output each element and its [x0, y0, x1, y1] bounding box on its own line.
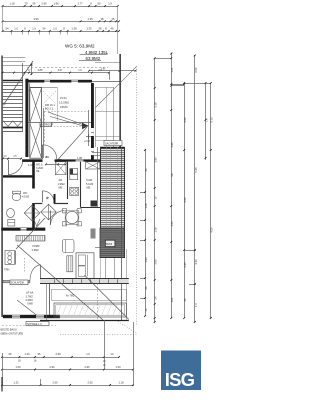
svg-text:4.50: 4.50	[183, 197, 187, 203]
svg-text:BV03: BV03	[106, 243, 113, 246]
bath door arc	[8, 160, 23, 175]
svg-text:18: 18	[18, 360, 21, 363]
svg-text:96: 96	[170, 173, 174, 176]
ISG logo	[161, 351, 201, 391]
svg-text:3,3M2: 3,3M2	[32, 248, 40, 252]
svg-text:1.0: 1.0	[194, 303, 198, 307]
svg-text:1.26: 1.26	[24, 352, 30, 356]
right dim verticals	[146, 53, 211, 322]
svg-text:84: 84	[46, 155, 50, 159]
svg-text:10: 10	[103, 361, 106, 363]
svg-text:WG 5: 63,9M2: WG 5: 63,9M2	[65, 44, 95, 49]
glazing verticals below block	[105, 258, 107, 283]
stair dark landing line	[3, 80, 23, 82]
bedroom door arc	[30, 265, 41, 281]
stair run diagonal	[4, 61, 33, 104]
svg-text:1,9M2: 1,9M2	[58, 182, 66, 186]
svg-text:BESTE BAUX: BESTE BAUX	[1, 328, 18, 332]
svg-text:1.0: 1.0	[86, 352, 90, 356]
svg-text:1.50: 1.50	[15, 365, 21, 369]
big diagonal 1	[17, 245, 103, 320]
dashed line above unit	[27, 67, 108, 69]
corridor walls	[67, 162, 69, 199]
schnee label box	[26, 322, 49, 326]
bath fixture	[8, 220, 15, 227]
svg-text:8: 8	[63, 27, 65, 31]
svg-text:GWB: GWB	[27, 303, 33, 306]
strip dark bottom block	[100, 228, 125, 258]
svg-text:2.45: 2.45	[183, 262, 187, 268]
svg-text:8: 8	[90, 2, 92, 6]
dashed mid line	[44, 126, 88, 128]
bottom dim line 2	[2, 369, 133, 371]
right outer wall	[119, 54, 121, 147]
svg-text:38: 38	[101, 17, 104, 21]
svg-text:1.90: 1.90	[144, 257, 148, 263]
terrace inner box	[95, 87, 114, 89]
interior dim chain	[2, 158, 22, 160]
stair treads	[3, 83, 23, 122]
level cross marks	[86, 136, 91, 138]
bedroom top wall band right	[40, 280, 56, 282]
tilted square 1	[24, 205, 40, 221]
wardrobe hatch band	[16, 236, 45, 242]
svg-text:3.47: 3.47	[58, 69, 63, 72]
svg-text:8: 8	[105, 27, 107, 31]
dotted roof outline corner diagonal	[116, 320, 137, 333]
terrace top edge line	[92, 81, 120, 83]
svg-text:1.26: 1.26	[144, 203, 148, 209]
dim A labels	[9, 2, 112, 6]
svg-text:45: 45	[111, 27, 114, 31]
svg-text:ZI 01: ZI 01	[60, 96, 67, 100]
terrace bottom edge	[40, 320, 129, 322]
svg-text:96: 96	[33, 2, 36, 6]
bottom dim connectors	[2, 353, 4, 386]
svg-text:SCHLAFZIM.: SCHLAFZIM.	[11, 282, 25, 285]
top outer wall	[25, 80, 92, 83]
dim line above top wall	[2, 72, 109, 74]
stairwell outer walls	[1, 56, 3, 132]
svg-text:54: 54	[43, 27, 46, 31]
svg-text:2.96: 2.96	[41, 2, 47, 6]
tv sideboard hatch	[67, 256, 73, 272]
svg-text:5.26: 5.26	[153, 102, 157, 108]
svg-text:10: 10	[153, 196, 157, 199]
strip left small lines	[92, 152, 100, 154]
svg-text:63,9M2: 63,9M2	[86, 56, 101, 61]
svg-text:2.96: 2.96	[49, 365, 55, 369]
shaft+storage box top	[30, 87, 58, 89]
strip top label box	[104, 141, 122, 146]
korridor label box	[40, 122, 52, 126]
svg-text:96: 96	[9, 352, 12, 356]
svg-text:AR: AR	[59, 178, 63, 182]
sofa	[76, 253, 94, 278]
room1 bottom line	[28, 122, 91, 124]
room1 interior lines	[29, 83, 31, 121]
bath inner door arc	[43, 191, 55, 203]
svg-text:13,5M2: 13,5M2	[59, 101, 69, 105]
dark column	[91, 201, 98, 207]
svg-text:1.96: 1.96	[53, 2, 59, 6]
dotted roof outline vertical	[136, 66, 138, 325]
svg-text:1.0: 1.0	[53, 27, 57, 31]
svg-text:ME: ME	[87, 186, 91, 190]
central wall	[91, 83, 94, 160]
svg-text:1.18: 1.18	[9, 2, 15, 6]
svg-text:KGB: KGB	[87, 178, 93, 182]
svg-text:ME: ME	[59, 186, 63, 190]
dim C labels	[6, 27, 114, 31]
svg-text:1.50: 1.50	[115, 365, 121, 369]
chairs	[62, 209, 66, 213]
svg-text:2.55: 2.55	[52, 380, 58, 384]
svg-text:2.96: 2.96	[84, 365, 90, 369]
svg-text:1.18: 1.18	[118, 380, 124, 384]
svg-text:45: 45	[112, 17, 115, 21]
svg-text:6.55: 6.55	[194, 67, 198, 73]
svg-text:9.10: 9.10	[210, 117, 214, 123]
svg-text:1.0: 1.0	[14, 27, 18, 31]
dim right connector vertical	[117, 6, 119, 55]
svg-text:96: 96	[38, 352, 41, 356]
svg-text:4.25: 4.25	[194, 259, 198, 265]
svg-text:75: 75	[25, 2, 28, 6]
svg-text:DACHTERR.: DACHTERR.	[105, 142, 119, 145]
svg-text:0BEN+ONTSTURE: 0BEN+ONTSTURE	[1, 331, 24, 335]
svg-text:WC: WC	[23, 191, 27, 195]
svg-text:80: 80	[98, 2, 101, 6]
stove	[70, 187, 79, 195]
svg-text:4.50: 4.50	[210, 227, 214, 233]
svg-text:1.77: 1.77	[77, 2, 83, 6]
kitchen door arc	[51, 211, 65, 225]
svg-text:15M3: 15M3	[60, 105, 68, 109]
right dim horizontal stubs	[155, 58, 172, 60]
svg-text:38: 38	[99, 27, 102, 31]
wardrobe X box left	[55, 162, 66, 175]
elevator X brace lower	[30, 123, 42, 158]
elevator X brace upper	[30, 88, 42, 123]
slope arrow taper lines	[48, 112, 86, 126]
wc toilet	[12, 193, 21, 200]
bath top wall	[3, 175, 33, 177]
dining table	[65, 211, 79, 225]
planter box	[54, 303, 126, 317]
left outer wall of unit	[25, 79, 28, 157]
svg-text:5.45: 5.45	[194, 167, 198, 173]
svg-text:1,7M2: 1,7M2	[26, 294, 34, 298]
svg-text:4,9M2 135L: 4,9M2 135L	[85, 50, 109, 55]
dimension line C	[2, 31, 119, 33]
svg-text:5,1M2: 5,1M2	[86, 182, 94, 186]
bedroom wall vertical	[15, 251, 17, 265]
svg-text:54: 54	[153, 296, 157, 299]
svg-text:1.0B: 1.0B	[77, 157, 82, 160]
svg-text:ISG: ISG	[165, 369, 195, 390]
bottom dim line 3	[2, 385, 133, 387]
svg-text:4,1M2: 4,1M2	[22, 195, 30, 199]
svg-text:1.01: 1.01	[170, 67, 174, 73]
dotted roof outline bottom	[60, 334, 137, 336]
svg-text:BO 2.1: BO 2.1	[45, 107, 54, 111]
kitchen box 2	[70, 175, 78, 180]
storage diagonal	[17, 300, 39, 317]
hatched strip	[100, 147, 125, 228]
entrance bottom wall left	[22, 159, 43, 162]
thin line under wall	[2, 325, 56, 327]
bath bottom wall	[1, 228, 45, 231]
shaft circles box	[5, 251, 15, 265]
dim B labels	[33, 17, 115, 21]
dimension line A top	[2, 6, 118, 8]
svg-text:2.60: 2.60	[153, 259, 157, 265]
window X box right	[86, 162, 100, 169]
svg-text:1.0: 1.0	[3, 156, 7, 158]
svg-text:1.35: 1.35	[87, 17, 93, 21]
svg-text:54: 54	[6, 27, 9, 31]
dim line terrace top	[89, 70, 136, 72]
right dim rotated labels	[144, 67, 214, 312]
tilted square 2	[41, 204, 57, 220]
svg-text:1.0: 1.0	[78, 69, 82, 72]
svg-text:1.38: 1.38	[71, 27, 77, 31]
svg-text:1.38: 1.38	[153, 227, 157, 233]
svg-text:10: 10	[111, 352, 114, 356]
armchair	[63, 240, 75, 253]
living bottom window band	[40, 279, 129, 283]
svg-text:VORR: VORR	[32, 244, 40, 248]
diagonal V left	[16, 218, 45, 249]
dark element 2	[91, 229, 96, 239]
svg-text:HE: HE	[36, 170, 40, 173]
svg-text:85: 85	[45, 195, 50, 200]
svg-text:8: 8	[24, 27, 26, 31]
svg-text:0,9M3: 0,9M3	[26, 298, 34, 302]
stair bottom landing W pattern	[3, 121, 22, 127]
svg-text:3.96: 3.96	[33, 17, 39, 21]
kitchen box 1	[70, 169, 78, 174]
roof hip diagonal top-right	[96, 67, 137, 108]
block label box	[105, 240, 115, 246]
svg-text:17: 17	[28, 69, 31, 72]
elevator dashed guide	[44, 111, 46, 143]
svg-text:18: 18	[34, 360, 37, 363]
right dim ticks	[144, 53, 212, 323]
svg-text:3.85: 3.85	[38, 69, 43, 72]
svg-text:1.35: 1.35	[86, 27, 92, 31]
svg-text:1.90: 1.90	[170, 142, 174, 148]
sink	[7, 208, 15, 217]
kitchen top wall	[55, 159, 101, 161]
vertical line at arrow	[88, 110, 90, 146]
svg-text:2.55: 2.55	[87, 380, 93, 384]
bath right wall	[32, 160, 35, 189]
entrance door arc	[43, 145, 57, 159]
bedroom top wall band left	[3, 280, 30, 282]
dashed stub	[24, 258, 26, 272]
terrace right edge lines	[121, 147, 123, 321]
slope arrowhead	[82, 123, 89, 130]
kitchen bottom walls	[35, 203, 43, 205]
svg-text:+2.80: +2.80	[84, 140, 91, 143]
svg-text:LR AA: LR AA	[26, 291, 34, 295]
elevator shaft box	[30, 88, 42, 159]
bottom dim line 1	[2, 357, 119, 359]
svg-text:1.55: 1.55	[170, 221, 174, 227]
svg-text:1.0: 1.0	[32, 27, 36, 31]
dashed slope marks in storage	[43, 91, 56, 104]
funnel small	[34, 219, 41, 226]
svg-text:1.01: 1.01	[170, 297, 174, 303]
svg-text:1.9x: 1.9x	[101, 68, 106, 71]
svg-text:1.5: 1.5	[13, 156, 17, 158]
svg-text:2.96: 2.96	[55, 352, 61, 356]
svg-text:4.50: 4.50	[183, 117, 187, 123]
entrance wall stub right	[57, 159, 63, 162]
unit bottom wall left	[3, 315, 60, 318]
svg-text:1.9: 1.9	[108, 2, 112, 6]
svg-text:1.32: 1.32	[13, 380, 19, 384]
svg-text:96: 96	[183, 298, 187, 301]
svg-text:10: 10	[103, 365, 106, 367]
svg-text:DM 16.1: DM 16.1	[45, 103, 55, 107]
svg-text:1.0: 1.0	[204, 118, 208, 122]
left outer wall lower	[1, 132, 3, 318]
big diagonal 2	[84, 275, 128, 319]
svg-text:TRH: TRH	[4, 268, 9, 272]
dimension line B	[2, 21, 119, 23]
svg-text:2.80: 2.80	[153, 157, 157, 163]
dim left connector vertical	[2, 5, 4, 32]
stair dim stub	[31, 64, 33, 76]
storage room right wall	[49, 283, 51, 315]
